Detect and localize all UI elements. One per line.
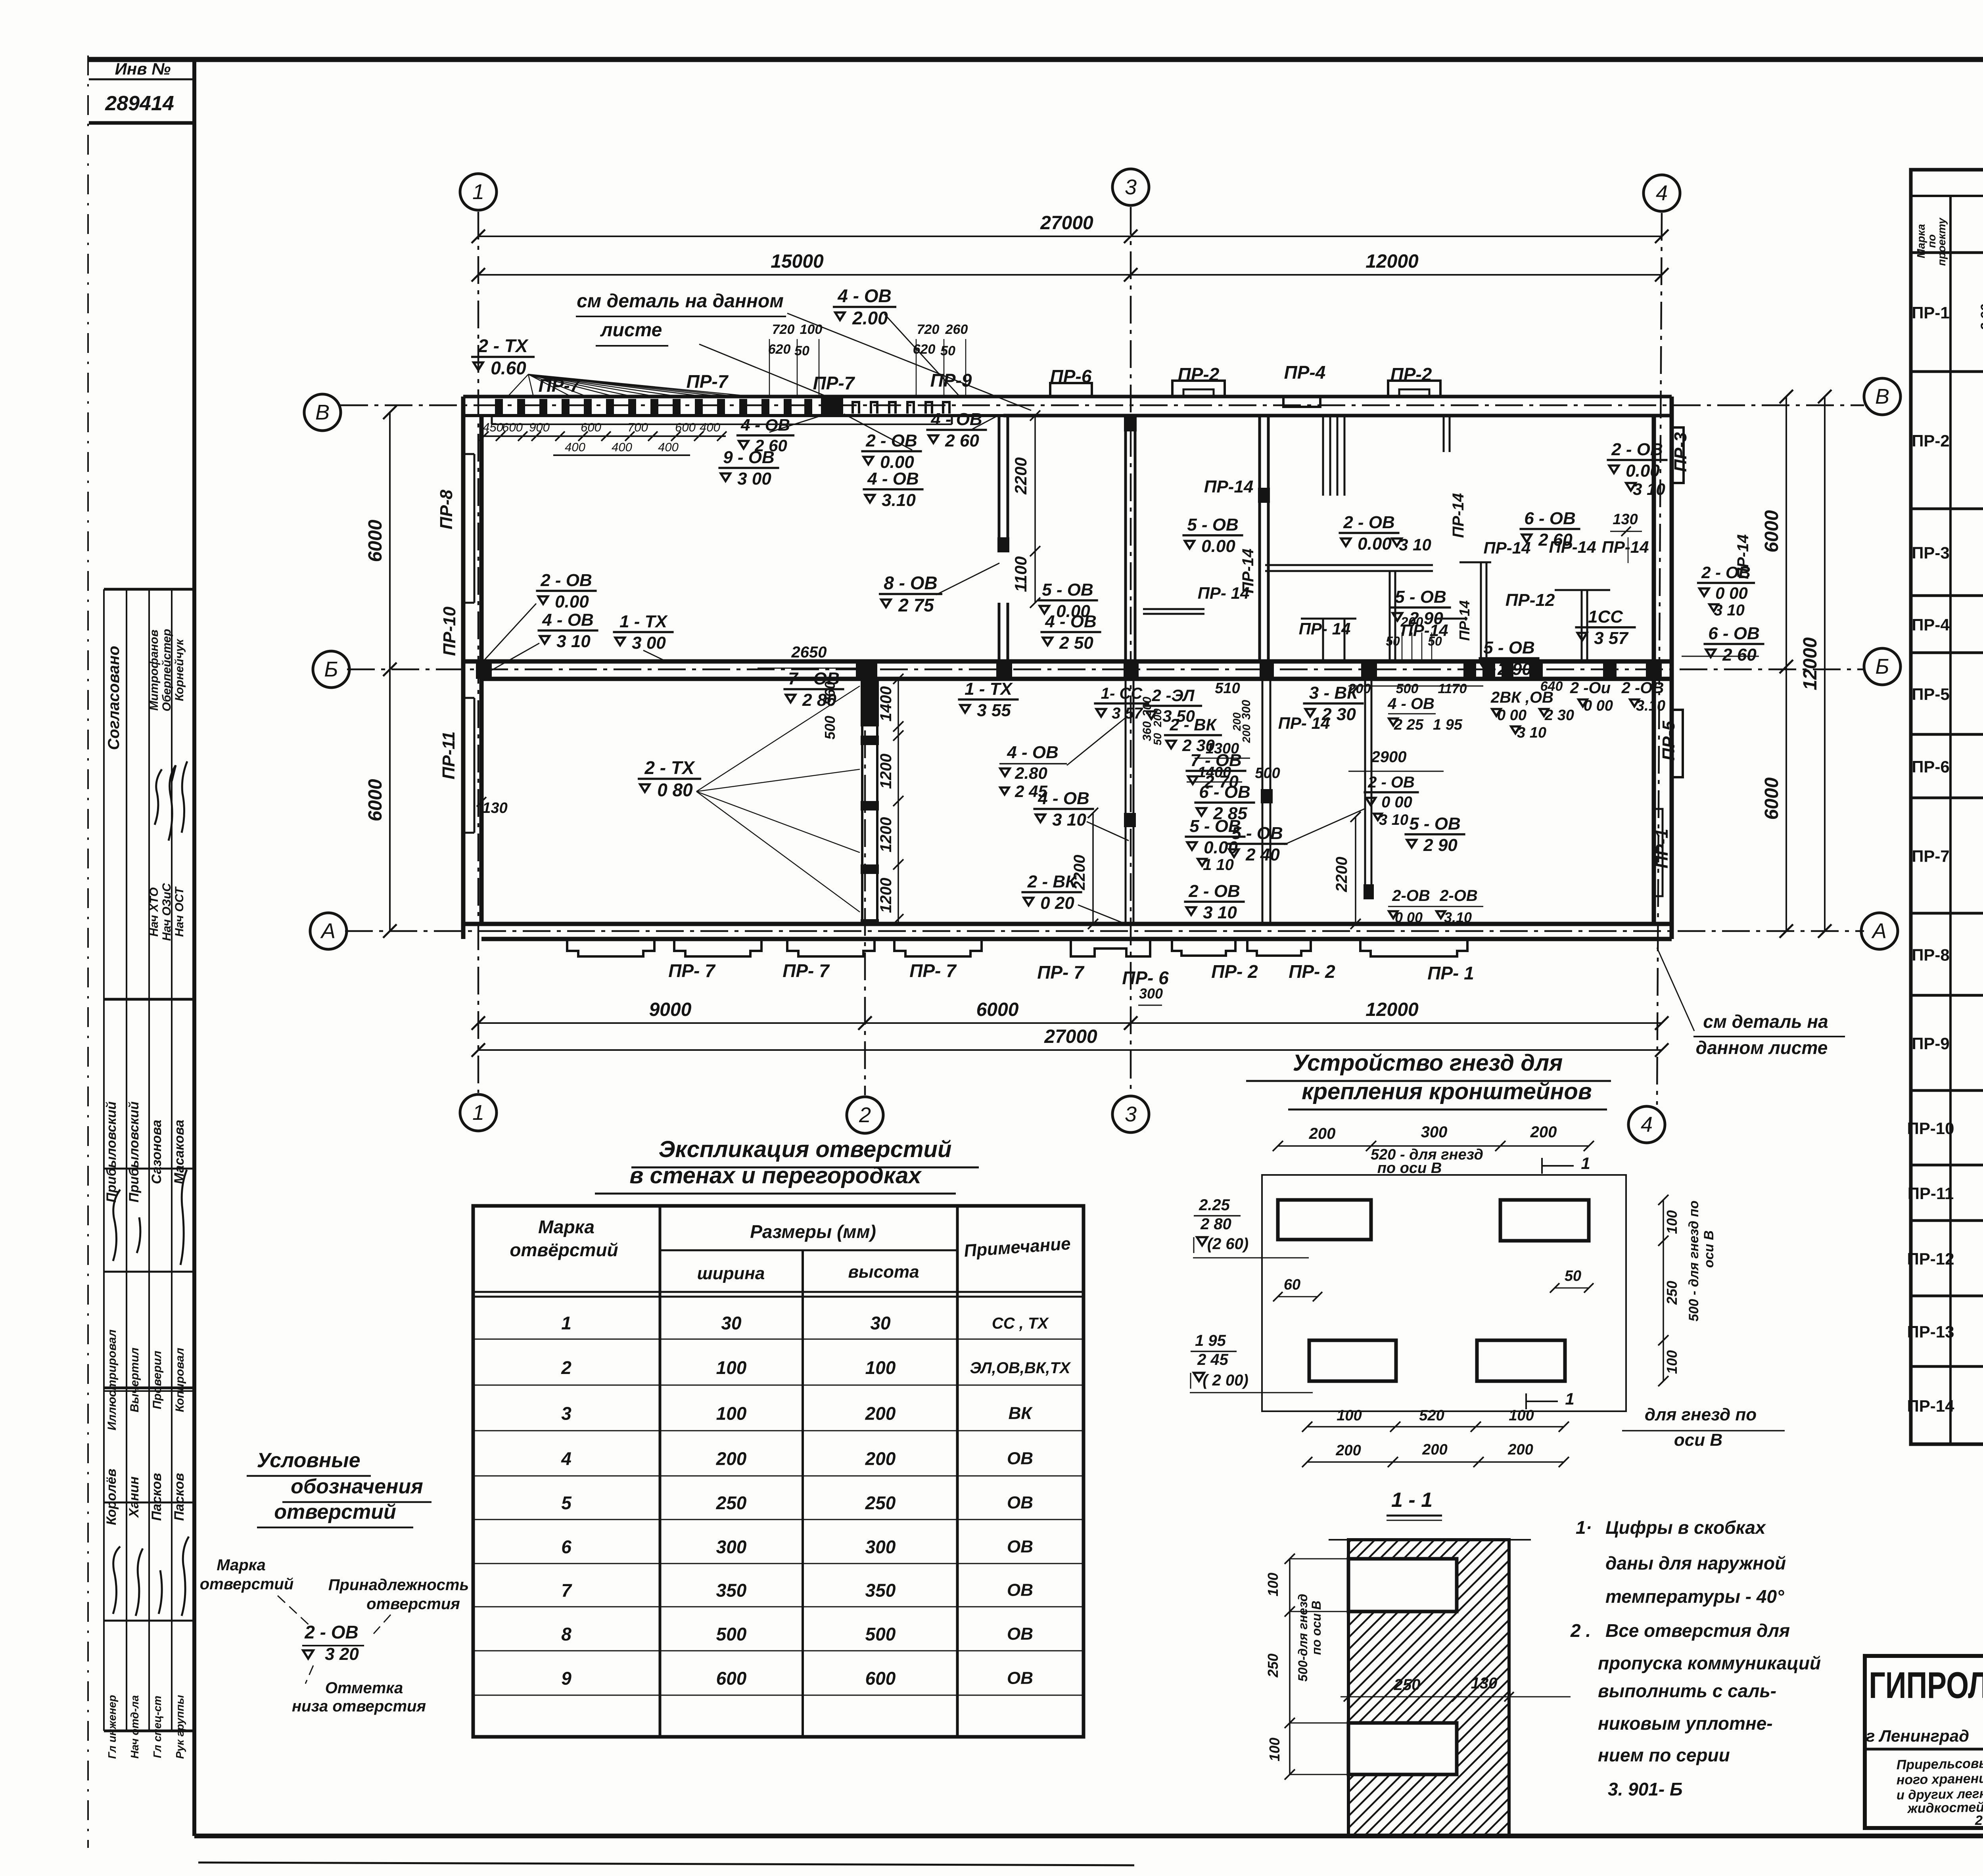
svg-text:Пасков: Пасков — [172, 1473, 187, 1521]
svg-text:720: 720 — [772, 322, 795, 337]
svg-text:6 - ОВ: 6 - ОВ — [1524, 509, 1576, 528]
svg-text:1 95: 1 95 — [1433, 717, 1463, 733]
svg-text:100: 100 — [1509, 1407, 1534, 1424]
partition wall axis3 top half — [1124, 416, 1127, 661]
svg-text:2-ОВ: 2-ОВ — [1439, 887, 1478, 904]
svg-text:1200: 1200 — [877, 878, 895, 913]
svg-text:пропуска коммуникаций: пропуска коммуникаций — [1598, 1653, 1821, 1673]
svg-text:ПР-6: ПР-6 — [1050, 366, 1092, 387]
svg-text:200: 200 — [865, 1449, 896, 1469]
svg-text:100: 100 — [1265, 1573, 1281, 1596]
svg-text:ПР-14: ПР-14 — [1204, 477, 1254, 496]
svg-text:2 -ЭЛ: 2 -ЭЛ — [1151, 686, 1195, 705]
svg-text:(2 60): (2 60) — [1207, 1235, 1249, 1253]
dimension 27000 bottom — [478, 1049, 1662, 1051]
svg-text:9 - ОВ: 9 - ОВ — [723, 448, 775, 467]
svg-text:5: 5 — [561, 1493, 572, 1513]
svg-text:Пасков: Пасков — [149, 1473, 164, 1521]
svg-text:200: 200 — [1309, 1125, 1336, 1142]
svg-text:200: 200 — [1530, 1123, 1557, 1141]
scan edge artifact bottom left — [198, 1863, 1134, 1865]
svg-text:ПР-4: ПР-4 — [1912, 615, 1950, 634]
svg-text:2 90: 2 90 — [1497, 659, 1532, 679]
svg-text:Нач ХТО: Нач ХТО — [148, 887, 161, 937]
svg-text:6000: 6000 — [365, 519, 386, 562]
svg-text:ПР- 2: ПР- 2 — [1289, 961, 1335, 982]
svg-text:4 - ОВ: 4 - ОВ — [930, 410, 982, 429]
stamp texts soglasovano block — [105, 629, 187, 941]
svg-text:300: 300 — [1139, 985, 1163, 1002]
svg-text:500: 500 — [865, 1624, 896, 1644]
svg-text:ПР-1: ПР-1 — [1652, 829, 1672, 868]
svg-text:4 - ОВ: 4 - ОВ — [1038, 789, 1089, 808]
svg-text:ВК: ВК — [1009, 1403, 1033, 1423]
svg-text:ПР-10: ПР-10 — [440, 606, 459, 656]
svg-text:620: 620 — [768, 342, 791, 357]
dimension 9000 6000 12000 bottom — [478, 1022, 1662, 1024]
svg-text:600: 600 — [502, 420, 523, 434]
schedule row ПР-14 — [1907, 1377, 1983, 1426]
svg-text:Цифры в скобках: Цифры в скобках — [1605, 1517, 1766, 1538]
axis line B horizontal — [347, 669, 1864, 671]
dimension 15000 12000 top — [478, 274, 1662, 276]
svg-text:289414: 289414 — [105, 92, 174, 115]
svg-text:450: 450 — [483, 420, 503, 434]
niche wall top right corner — [1443, 416, 1445, 452]
svg-text:отверстий: отверстий — [274, 1500, 396, 1523]
svg-text:по оси В: по оси В — [1309, 1601, 1323, 1655]
svg-text:обозначения: обозначения — [291, 1475, 423, 1498]
svg-text:250: 250 — [1394, 1676, 1421, 1694]
svg-text:отверстий: отверстий — [200, 1575, 294, 1593]
svg-text:2.00: 2.00 — [852, 308, 888, 328]
svg-text:Инв №: Инв № — [115, 59, 171, 78]
svg-text:520: 520 — [1419, 1407, 1444, 1424]
svg-text:4 - ОВ: 4 - ОВ — [837, 286, 891, 306]
svg-text:3 10: 3 10 — [1379, 812, 1408, 828]
svg-text:( 2 00): ( 2 00) — [1202, 1372, 1248, 1389]
svg-text:Вычертил: Вычертил — [128, 1347, 141, 1412]
svg-text:250: 250 — [1664, 1281, 1680, 1305]
svg-text:крепления кронштейнов: крепления кронштейнов — [1302, 1079, 1592, 1104]
svg-text:130: 130 — [1471, 1675, 1498, 1692]
svg-text:500-для гнезд: 500-для гнезд — [1296, 1594, 1310, 1681]
svg-text:листе: листе — [600, 320, 662, 341]
svg-text:2 45: 2 45 — [1197, 1351, 1229, 1368]
svg-text:отвёрстий: отвёрстий — [510, 1240, 618, 1260]
svg-text:0 00: 0 00 — [1715, 584, 1748, 602]
svg-text:0 00: 0 00 — [1497, 707, 1527, 724]
section 1-1 top notch — [1348, 1559, 1457, 1612]
svg-text:ПР-3: ПР-3 — [1912, 544, 1950, 562]
svg-text:3: 3 — [1125, 175, 1137, 199]
svg-text:2 - ВК: 2 - ВК — [1027, 872, 1077, 891]
svg-text:600: 600 — [716, 1668, 747, 1688]
svg-text:2 - ОВ: 2 - ОВ — [865, 431, 917, 450]
svg-text:4: 4 — [1656, 181, 1668, 205]
svg-text:Марка: Марка — [217, 1556, 266, 1574]
svg-text:1: 1 — [472, 180, 484, 204]
svg-text:ПР-14: ПР-14 — [1484, 538, 1531, 557]
svg-text:Прибыловский: Прибыловский — [104, 1101, 119, 1202]
svg-text:ПР-1: ПР-1 — [1912, 303, 1950, 322]
svg-text:ширина: ширина — [697, 1264, 765, 1283]
svg-text:0.00: 0.00 — [1626, 461, 1660, 481]
svg-text:ОВ: ОВ — [1007, 1537, 1033, 1556]
axis circle 1 bottom — [460, 1094, 497, 1131]
svg-text:3 10: 3 10 — [1714, 602, 1745, 619]
middle wall lintel blocks — [476, 661, 492, 679]
dim chain under top wall — [484, 435, 726, 437]
svg-text:200: 200 — [1422, 1441, 1447, 1458]
svg-text:130: 130 — [1613, 511, 1638, 528]
svg-text:ОВ: ОВ — [1007, 1624, 1033, 1644]
section 1-1 left dim chain — [1289, 1559, 1291, 1774]
svg-text:2 90: 2 90 — [1423, 835, 1458, 855]
svg-text:Ханин: Ханин — [127, 1476, 142, 1518]
svg-text:ОВ: ОВ — [1007, 1449, 1033, 1468]
svg-text:2ВК ,ОВ: 2ВК ,ОВ — [1490, 689, 1553, 706]
top exterior wall — [463, 395, 1672, 399]
axis line 4 vertical — [1657, 213, 1662, 1105]
title block frame — [1865, 1656, 1983, 1828]
dimension 27000 top — [478, 236, 1662, 237]
svg-text:3 - ВК: 3 - ВК — [1309, 683, 1359, 703]
svg-text:ПР-11: ПР-11 — [439, 731, 458, 779]
socket detail top dims — [1278, 1145, 1589, 1147]
svg-text:0 80: 0 80 — [657, 780, 693, 800]
svg-text:Принадлежность: Принадлежность — [328, 1576, 469, 1594]
svg-text:2 - ОВ: 2 - ОВ — [304, 1622, 358, 1642]
svg-text:4 - ОВ: 4 - ОВ — [867, 469, 919, 489]
svg-text:Согласовано: Согласовано — [105, 646, 123, 750]
svg-text:СС , ТХ: СС , ТХ — [992, 1315, 1049, 1332]
svg-text:2200: 2200 — [1011, 457, 1030, 494]
svg-text:3 10: 3 10 — [1399, 535, 1431, 554]
svg-text:2200: 2200 — [1333, 857, 1350, 893]
svg-text:130: 130 — [482, 800, 507, 816]
svg-text:ПР-7: ПР-7 — [813, 373, 855, 393]
svg-text:2.80: 2.80 — [1015, 764, 1047, 782]
svg-text:2 - ТХ: 2 - ТХ — [478, 335, 529, 356]
svg-text:5 - ОВ: 5 - ОВ — [1409, 814, 1461, 834]
svg-text:Гл спец-ст: Гл спец-ст — [151, 1696, 163, 1758]
svg-text:Б: Б — [1875, 655, 1889, 678]
partition wall x2530 top half — [998, 416, 1001, 551]
svg-text:2000 м: 2000 м — [1975, 1813, 1983, 1828]
svg-text:Размеры (мм): Размеры (мм) — [750, 1221, 876, 1242]
explication data rows — [473, 1313, 1084, 1339]
top wall inner ledges — [491, 416, 493, 424]
schedule row ПР-2 — [1911, 389, 1983, 509]
svg-text:ПР-4: ПР-4 — [1284, 362, 1326, 383]
dimension 12000 right — [1824, 397, 1826, 931]
svg-text:2.25: 2.25 — [1199, 1196, 1230, 1214]
axis circle B left — [313, 651, 349, 688]
svg-text:ПР-5: ПР-5 — [1659, 721, 1678, 761]
svg-text:3.10: 3.10 — [882, 491, 916, 510]
svg-text:ПР- 7: ПР- 7 — [782, 960, 830, 981]
svg-text:100: 100 — [1664, 1210, 1680, 1234]
svg-text:А: А — [1871, 919, 1887, 943]
svg-text:2 - ОВ: 2 - ОВ — [1343, 513, 1395, 532]
svg-text:400: 400 — [612, 440, 632, 454]
svg-text:30: 30 — [721, 1313, 742, 1333]
schedule row ПР-9 — [1911, 1004, 1983, 1090]
socket right dim chain — [1663, 1200, 1664, 1381]
svg-text:3 00: 3 00 — [737, 469, 771, 489]
svg-text:2 60: 2 60 — [1722, 645, 1757, 665]
svg-text:12000: 12000 — [1800, 637, 1821, 690]
svg-text:ОВ: ОВ — [1007, 1581, 1033, 1600]
svg-text:Рук группы: Рук группы — [174, 1695, 186, 1759]
svg-text:1200: 1200 — [877, 754, 895, 789]
svg-text:3 20: 3 20 — [325, 1644, 359, 1664]
schedule row ПР-11 — [1908, 1169, 1983, 1221]
svg-text:никовым уплотне-: никовым уплотне- — [1598, 1713, 1773, 1734]
svg-text:ПР- 7: ПР- 7 — [909, 960, 957, 981]
svg-text:ПР-12: ПР-12 — [1505, 590, 1555, 610]
stub partition center room — [1143, 608, 1204, 610]
svg-text:ПР-8: ПР-8 — [1912, 946, 1950, 964]
svg-text:250: 250 — [865, 1493, 896, 1513]
svg-text:Нач ОЗиС: Нач ОЗиС — [160, 883, 173, 941]
svg-text:6000: 6000 — [1761, 777, 1782, 820]
svg-text:400: 400 — [658, 440, 679, 454]
svg-text:по оси В: по оси В — [1377, 1160, 1442, 1177]
svg-text:2 80: 2 80 — [802, 690, 836, 710]
axis line V horizontal — [340, 404, 1864, 406]
inventory box Inv No — [89, 59, 194, 123]
svg-text:400: 400 — [700, 420, 720, 434]
axis circle 3 top — [1112, 169, 1149, 205]
socket bottom dim chains — [1307, 1426, 1564, 1428]
svg-text:1100: 1100 — [1011, 556, 1030, 592]
svg-text:Условные: Условные — [257, 1449, 360, 1472]
svg-text:12000: 12000 — [1365, 999, 1419, 1020]
svg-text:1400: 1400 — [877, 686, 895, 722]
svg-text:ПР- 1: ПР- 1 — [1427, 963, 1474, 983]
partition axis3 bottom half — [1125, 679, 1127, 924]
axis circle B right — [1864, 648, 1901, 685]
svg-text:1: 1 — [1565, 1389, 1574, 1408]
svg-text:500: 500 — [1255, 765, 1280, 782]
svg-text:ПР-8: ПР-8 — [437, 489, 456, 529]
svg-text:8: 8 — [561, 1624, 572, 1644]
svg-text:6 - ОВ: 6 - ОВ — [1199, 782, 1250, 802]
svg-text:ПР-7: ПР-7 — [539, 375, 581, 396]
svg-text:100: 100 — [1337, 1407, 1362, 1424]
svg-text:для гнезд по: для гнезд по — [1645, 1405, 1757, 1424]
svg-text:3 10: 3 10 — [556, 632, 591, 651]
svg-text:60: 60 — [1284, 1276, 1300, 1293]
schedule row ПР-7 — [1911, 811, 1983, 913]
svg-text:в стенах и перегородках: в стенах и перегородках — [629, 1163, 922, 1188]
svg-text:0.00: 0.00 — [1358, 534, 1392, 554]
svg-text:жидкостей емкостью: жидкостей емкостью — [1906, 1798, 1983, 1816]
svg-text:2900: 2900 — [1371, 748, 1407, 766]
svg-text:ПР- 7: ПР- 7 — [1037, 962, 1085, 983]
svg-text:5 - ОВ: 5 - ОВ — [1483, 638, 1535, 657]
svg-text:1170: 1170 — [1438, 681, 1467, 696]
dimension 6000 6000 right — [1785, 397, 1787, 931]
svg-text:4: 4 — [1641, 1113, 1653, 1136]
vent shaft PR-2 top second — [1388, 381, 1440, 397]
svg-text:3: 3 — [1125, 1102, 1137, 1126]
lintel schedule frame — [1911, 170, 1983, 1444]
socket bottom-right — [1477, 1340, 1565, 1381]
svg-text:проекту: проекту — [1935, 217, 1948, 266]
svg-text:0 00: 0 00 — [1584, 698, 1613, 714]
svg-text:В: В — [1875, 385, 1889, 408]
svg-text:1- СС: 1- СС — [1101, 685, 1143, 702]
svg-text:ГИПРОЛЕСТРАНС: ГИПРОЛЕСТРАНС — [1869, 1664, 1983, 1706]
svg-text:Митрофанов: Митрофанов — [148, 630, 161, 711]
vent shaft PR-2 top first — [1172, 381, 1225, 397]
svg-text:100: 100 — [716, 1403, 747, 1424]
svg-text:300: 300 — [716, 1537, 747, 1557]
top wall pier pattern — [495, 399, 949, 414]
svg-text:100: 100 — [800, 322, 823, 337]
vertical dim 2200 right room — [1355, 817, 1356, 924]
svg-text:ПР-7: ПР-7 — [687, 371, 729, 392]
svg-text:250: 250 — [716, 1493, 747, 1513]
right exterior wall — [1670, 397, 1674, 939]
svg-text:600: 600 — [581, 420, 601, 434]
svg-text:100: 100 — [865, 1357, 896, 1378]
svg-text:ПР-9: ПР-9 — [1912, 1034, 1950, 1053]
svg-text:ПР-14: ПР-14 — [1602, 538, 1649, 556]
svg-text:Все отверстия для: Все отверстия для — [1605, 1620, 1790, 1641]
svg-text:720: 720 — [917, 322, 940, 337]
svg-text:ПР-6: ПР-6 — [1912, 757, 1950, 776]
svg-text:2-ОВ: 2-ОВ — [1392, 887, 1430, 904]
svg-text:2 90: 2 90 — [1978, 304, 1983, 331]
axis circle 3 bottom — [1112, 1096, 1149, 1132]
svg-text:ПР-2: ПР-2 — [1390, 364, 1432, 385]
socket detail outer outline — [1262, 1175, 1626, 1411]
svg-text:1 - ТХ: 1 - ТХ — [965, 679, 1013, 699]
svg-text:6 - ОВ: 6 - ОВ — [1708, 624, 1760, 643]
svg-text:250: 250 — [1265, 1654, 1281, 1678]
svg-text:2200: 2200 — [1071, 855, 1088, 891]
svg-text:2 40: 2 40 — [1245, 845, 1280, 864]
svg-text:Нач ОСТ: Нач ОСТ — [173, 886, 186, 937]
section 1-1 mid dim 250 130 — [1341, 1696, 1571, 1698]
small room partitions top right — [1265, 564, 1433, 566]
svg-text:см деталь на данном: см деталь на данном — [577, 291, 784, 312]
svg-text:2 30: 2 30 — [1544, 707, 1574, 724]
svg-text:500: 500 — [716, 1624, 747, 1644]
svg-text:50: 50 — [940, 343, 955, 358]
schedule row ПР-4 — [1911, 596, 1983, 653]
axis circle 4 top — [1644, 175, 1680, 211]
svg-text:50: 50 — [1151, 733, 1164, 745]
svg-text:50: 50 — [1428, 634, 1442, 648]
svg-text:500: 500 — [1396, 681, 1419, 696]
partition wall x3188 top half — [1258, 416, 1261, 661]
svg-text:ПР-14: ПР-14 — [1456, 600, 1473, 641]
svg-text:2 - ОВ: 2 - ОВ — [1367, 774, 1415, 791]
svg-text:ЭЛ,ОВ,ВК,ТХ: ЭЛ,ОВ,ВК,ТХ — [970, 1359, 1071, 1377]
svg-text:27000: 27000 — [1040, 213, 1093, 234]
svg-text:Сазонова: Сазонова — [149, 1120, 164, 1184]
svg-text:2 - ОВ: 2 - ОВ — [1188, 881, 1240, 901]
svg-text:200: 200 — [716, 1449, 747, 1469]
svg-text:3.10: 3.10 — [1636, 698, 1665, 714]
leader fan see-detail — [787, 313, 1031, 410]
svg-text:400: 400 — [565, 440, 585, 454]
axis circle 2 bottom — [847, 1097, 883, 1133]
svg-text:2 75: 2 75 — [898, 595, 934, 615]
svg-text:3 10: 3 10 — [1517, 724, 1546, 741]
svg-text:200: 200 — [865, 1403, 896, 1424]
svg-text:260: 260 — [945, 322, 968, 337]
svg-text:4 - ОВ: 4 - ОВ — [1045, 612, 1097, 631]
svg-text:4: 4 — [561, 1449, 572, 1469]
svg-text:ПР-9: ПР-9 — [930, 370, 972, 391]
svg-text:ПР-14: ПР-14 — [1907, 1397, 1955, 1415]
svg-text:ПР-5: ПР-5 — [1912, 685, 1950, 703]
left exterior wall — [461, 397, 466, 939]
svg-text:0 00: 0 00 — [1395, 909, 1423, 926]
svg-text:500: 500 — [822, 716, 838, 740]
svg-text:г Ленинград: г Ленинград — [1866, 1727, 1969, 1745]
schedule row ПР-8 — [1911, 925, 1983, 995]
partition x3449 bottom right room — [1364, 679, 1366, 899]
axis line A horizontal — [345, 930, 1864, 932]
svg-text:ПР- 7: ПР- 7 — [668, 960, 716, 981]
axis line 1 vertical — [478, 212, 479, 1093]
svg-text:50: 50 — [1386, 634, 1400, 648]
svg-text:2: 2 — [859, 1103, 871, 1127]
axis circle V right — [1864, 378, 1901, 415]
svg-text:2 50: 2 50 — [1059, 633, 1093, 653]
svg-text:низа отверстия: низа отверстия — [292, 1698, 426, 1715]
svg-text:выполнить с саль-: выполнить с саль- — [1598, 1681, 1776, 1701]
svg-text:200: 200 — [1507, 1441, 1533, 1458]
svg-text:ПР- 2: ПР- 2 — [1211, 961, 1258, 982]
stamp column grid — [104, 589, 194, 1731]
svg-text:ПР- 14: ПР- 14 — [1278, 714, 1330, 732]
svg-text:5 - ОВ: 5 - ОВ — [1231, 824, 1283, 843]
legend leaders — [278, 1596, 313, 1629]
svg-text:Королёв: Королёв — [104, 1469, 119, 1525]
svg-text:3 57: 3 57 — [1112, 705, 1143, 722]
svg-text:6: 6 — [561, 1537, 572, 1557]
vertical dim 2200 center — [1092, 813, 1094, 924]
svg-text:ПР-12: ПР-12 — [1907, 1249, 1954, 1268]
svg-text:2 25: 2 25 — [1394, 717, 1424, 733]
svg-text:350: 350 — [716, 1580, 747, 1601]
svg-text:ОВ: ОВ — [1007, 1668, 1033, 1688]
svg-text:5 - ОВ: 5 - ОВ — [1042, 580, 1093, 600]
svg-text:3 10: 3 10 — [1052, 810, 1086, 830]
svg-text:27000: 27000 — [1044, 1026, 1097, 1047]
svg-text:ПР-13: ПР-13 — [1907, 1322, 1954, 1341]
svg-text:3 55: 3 55 — [977, 701, 1011, 720]
axis line 3 vertical — [1130, 207, 1132, 1094]
svg-text:3 10: 3 10 — [1203, 903, 1237, 922]
svg-text:15000: 15000 — [771, 251, 824, 272]
svg-text:ПР- 14: ПР- 14 — [1299, 619, 1351, 638]
svg-text:Проверил: Проверил — [151, 1351, 164, 1409]
schedule row ПР-3 — [1911, 522, 1983, 596]
svg-text:30: 30 — [870, 1313, 891, 1333]
svg-text:0.60: 0.60 — [491, 358, 526, 378]
130 dim top right inside — [1628, 537, 1629, 563]
svg-text:200: 200 — [1335, 1442, 1361, 1459]
